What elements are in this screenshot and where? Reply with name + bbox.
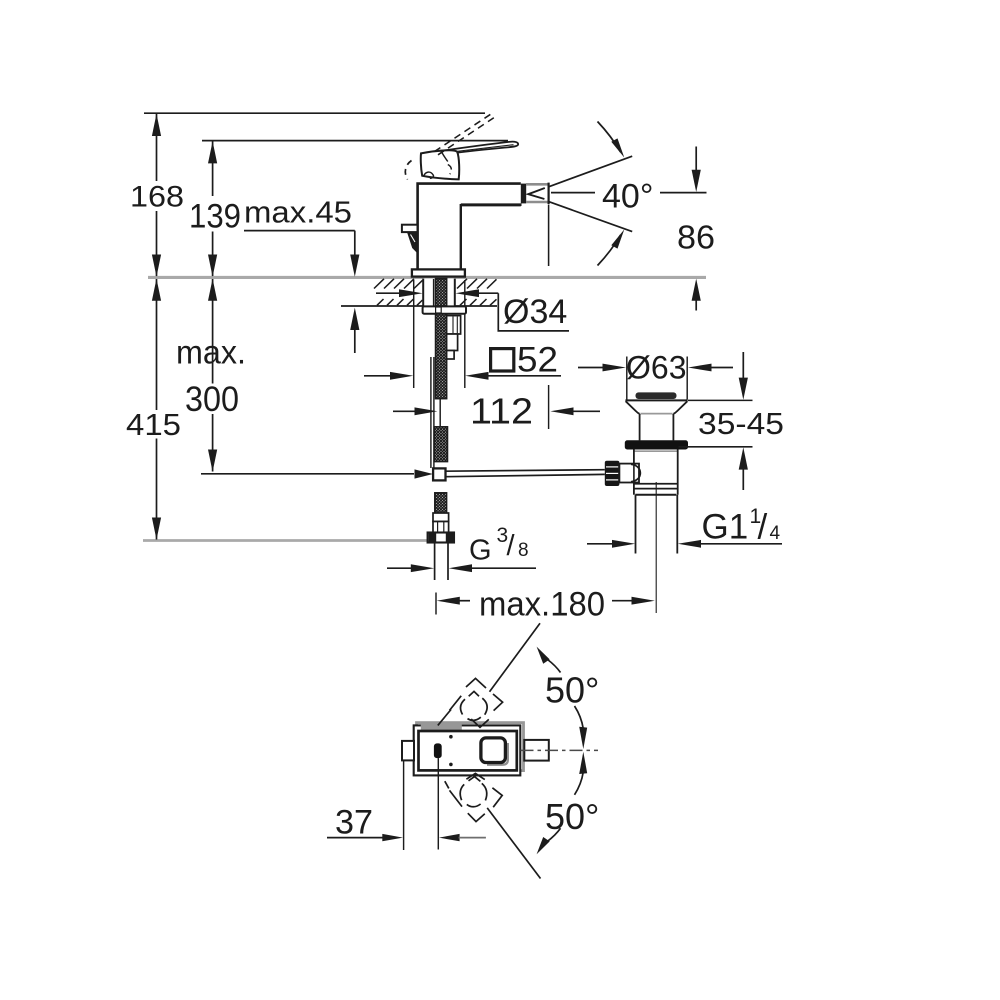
faucet body — [418, 184, 521, 270]
svg-text:4: 4 — [770, 523, 781, 544]
dim 50 arc lower — [537, 752, 588, 854]
handle swing dashed arc — [405, 161, 411, 180]
drain rod knurled knob — [605, 461, 620, 486]
svg-text:max.45: max.45 — [244, 195, 352, 230]
countertop line — [148, 276, 706, 279]
hose nut shoulder — [433, 522, 449, 533]
spray angle arc lower — [598, 229, 625, 265]
pop-up rod horizontal line — [201, 473, 414, 475]
svg-text:G: G — [469, 535, 492, 567]
svg-text:max.: max. — [176, 334, 246, 371]
hose hatched segment lower — [435, 493, 447, 513]
dim Ø34 leader — [498, 293, 569, 331]
svg-text:50°: 50° — [545, 796, 599, 837]
dim max.300 extension line — [208, 279, 217, 472]
drain centerline — [655, 482, 657, 613]
dim 415 extension line — [152, 279, 161, 540]
pop-up rod to drain — [446, 470, 605, 477]
pop-up rod knob tab — [402, 225, 418, 254]
svg-text:Ø63: Ø63 — [626, 350, 686, 386]
dim 139 reference line — [202, 140, 508, 142]
base plate — [412, 269, 465, 276]
handle lever dashed (open position) — [435, 112, 498, 155]
svg-text:/: / — [758, 508, 768, 547]
handle ray upper — [438, 623, 540, 725]
spout aerator — [521, 183, 549, 204]
svg-text:52: 52 — [517, 341, 558, 380]
dim 50 arc upper — [537, 647, 588, 749]
drain plug disc — [636, 392, 677, 399]
dim square52 symbol — [491, 349, 514, 371]
svg-text:max.180: max.180 — [479, 586, 605, 624]
dim 37 extension lines — [404, 758, 439, 850]
spout axis line — [548, 205, 550, 267]
svg-text:35-45: 35-45 — [698, 406, 784, 441]
hole walls — [423, 279, 455, 306]
handle dashed square upper — [450, 678, 503, 727]
svg-text:50°: 50° — [545, 670, 599, 711]
flexible hose upper edge lines — [431, 357, 440, 468]
dim 112 arrows — [393, 407, 600, 415]
dim 35-45 leaders — [679, 400, 753, 446]
dim max.45 leader and arrows — [244, 231, 359, 353]
body shadow rect — [417, 723, 524, 771]
spray fan upper ray — [549, 156, 633, 187]
G3/8 pipe lines — [435, 543, 448, 581]
drain rubber gasket — [625, 440, 688, 449]
dim G1 1/4 label — [702, 505, 781, 547]
dim max.180 left — [436, 593, 470, 615]
svg-text:86: 86 — [677, 219, 715, 256]
handle lever (closed) — [445, 142, 519, 155]
dim 40 trailing line — [660, 192, 707, 194]
mounting hole bore (white under shank) — [423, 279, 455, 306]
handle pivot blob — [434, 743, 442, 758]
countertop hatching left — [374, 279, 423, 306]
handle knob — [421, 150, 459, 179]
body top edge gray overlay — [421, 722, 462, 730]
hose hatched segment mid — [434, 427, 447, 462]
svg-text:8: 8 — [518, 540, 529, 561]
dim Ø63 arrows — [578, 364, 733, 372]
rod connector square — [433, 468, 445, 480]
dim max.180 right — [612, 597, 655, 605]
body bottom edge gray overlay — [461, 767, 517, 770]
left tab — [402, 741, 414, 761]
threaded shank — [436, 279, 447, 399]
dim 37 arrows — [327, 834, 486, 841]
body inner rect — [419, 731, 517, 770]
svg-text:300: 300 — [185, 380, 239, 419]
countertop hatching right — [457, 279, 497, 306]
svg-text:112: 112 — [470, 391, 533, 432]
alignment dots — [449, 735, 453, 739]
svg-text:40°: 40° — [602, 178, 653, 216]
dim G3/8 label — [469, 524, 529, 567]
svg-text:168: 168 — [130, 181, 184, 214]
countertop underside line — [341, 305, 497, 307]
spray fan lower ray — [549, 202, 633, 232]
dim 139 extension line — [208, 141, 217, 277]
dim 52 arrows — [364, 372, 561, 380]
dim G1 1/4 arrows — [587, 540, 782, 548]
centerline dash-dot — [521, 749, 599, 751]
mounting nut — [423, 306, 466, 313]
drain body — [634, 450, 678, 495]
right spout stub — [524, 740, 549, 761]
dim 168 extension line — [152, 113, 161, 277]
dim 86 bottom arrow — [692, 279, 701, 311]
body outer rect — [414, 725, 521, 775]
rod connector arrow — [415, 469, 434, 478]
svg-text:415: 415 — [126, 407, 181, 442]
dim 112 extension line — [548, 385, 550, 429]
hose nipple steps — [447, 316, 461, 359]
handle dashed inner knob lower — [460, 777, 487, 807]
dim 168 top reference line — [144, 112, 485, 114]
drain flange — [625, 400, 687, 440]
spray angle arc upper — [598, 122, 625, 158]
dim 86 top arrow — [692, 147, 701, 193]
bottom reference line — [143, 539, 430, 542]
spout arm bottom edge — [461, 203, 522, 206]
dim 35-45 arrows — [739, 352, 748, 490]
handle dashed square lower — [445, 773, 502, 821]
svg-text:Ø34: Ø34 — [503, 293, 567, 331]
handle dashed inner knob upper — [461, 691, 488, 720]
dim 40 leader — [551, 192, 595, 194]
dim G3/8 arrows — [387, 564, 536, 572]
dim Ø34 arrows — [376, 289, 498, 297]
spout hole shaded offset — [487, 743, 508, 765]
svg-text:G1: G1 — [702, 508, 749, 547]
svg-text:/: / — [507, 530, 516, 562]
spout hole square — [481, 738, 506, 763]
handle ray lower — [487, 808, 540, 879]
hose collar — [433, 513, 449, 522]
hose end nut — [428, 533, 454, 543]
dim Ø63 extension lines — [627, 357, 687, 400]
dim 52 extension lines — [414, 280, 465, 388]
drain rod joint cylinder — [619, 464, 640, 483]
svg-text:139: 139 — [189, 198, 241, 236]
drain tailpipe — [636, 495, 678, 554]
svg-text:37: 37 — [335, 804, 373, 842]
